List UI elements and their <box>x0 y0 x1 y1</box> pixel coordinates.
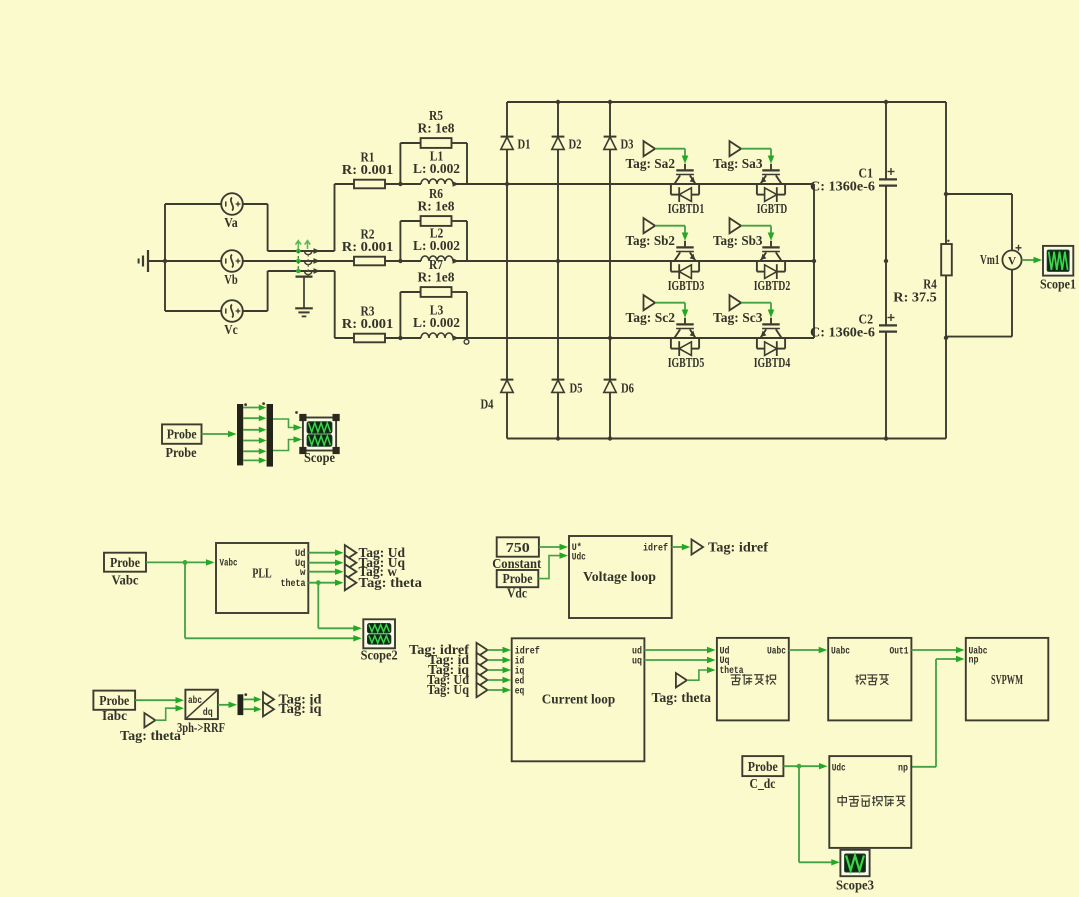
svg-text:Tag: Sb3: Tag: Sb3 <box>713 233 763 248</box>
svg-text:R: 0.001: R: 0.001 <box>342 239 394 254</box>
svg-text:IGBTD2: IGBTD2 <box>754 278 791 293</box>
svg-text:Udc: Udc <box>572 551 586 562</box>
svg-text:R: 0.001: R: 0.001 <box>342 316 394 331</box>
svg-text:D2: D2 <box>569 137 582 152</box>
svg-text:R: 1e8: R: 1e8 <box>418 120 455 135</box>
svg-text:D3: D3 <box>621 137 634 152</box>
svg-text:Tag: Sa2: Tag: Sa2 <box>626 156 676 171</box>
svg-text:750: 750 <box>506 541 530 556</box>
svg-text:IGBTD5: IGBTD5 <box>668 355 705 370</box>
svg-text:IGBTD1: IGBTD1 <box>668 201 705 216</box>
svg-text:Probe: Probe <box>166 445 197 460</box>
svg-text:Scope1: Scope1 <box>1040 277 1076 292</box>
svg-text:uq: uq <box>632 656 642 667</box>
svg-text:Tag: idref: Tag: idref <box>708 540 769 555</box>
svg-text:3ph->RRF: 3ph->RRF <box>177 720 225 735</box>
svg-text:Tag: Uq: Tag: Uq <box>427 682 469 697</box>
svg-text:abc: abc <box>188 695 202 706</box>
svg-text:Vdc: Vdc <box>507 586 527 601</box>
svg-text:Scope3: Scope3 <box>836 878 874 893</box>
svg-text:Probe: Probe <box>503 571 533 586</box>
svg-text:D6: D6 <box>621 381 634 396</box>
svg-text:Tag: iq: Tag: iq <box>279 701 323 716</box>
svg-text:Probe: Probe <box>748 759 778 774</box>
svg-text:np: np <box>969 655 979 666</box>
svg-text:L: 0.002: L: 0.002 <box>413 315 460 330</box>
svg-text:Probe: Probe <box>167 427 197 442</box>
svg-text:L: 0.002: L: 0.002 <box>413 161 460 176</box>
svg-text:IGBTD: IGBTD <box>757 201 788 216</box>
svg-text:Uabc: Uabc <box>831 645 850 656</box>
svg-text:Va: Va <box>224 215 238 230</box>
svg-text:Probe: Probe <box>99 693 129 708</box>
svg-text:C_dc: C_dc <box>750 776 776 791</box>
svg-text:w: w <box>300 567 306 578</box>
svg-text:Scope: Scope <box>304 450 335 465</box>
svg-text:R: 37.5: R: 37.5 <box>893 290 937 305</box>
svg-text:theta: theta <box>281 578 306 589</box>
svg-text:Voltage loop: Voltage loop <box>583 569 656 584</box>
svg-text:dq: dq <box>203 707 213 718</box>
svg-text:R: 1e8: R: 1e8 <box>418 198 455 213</box>
svg-text:Uabc: Uabc <box>767 645 786 656</box>
svg-text:Scope2: Scope2 <box>361 648 398 663</box>
svg-text:L: 0.002: L: 0.002 <box>413 238 460 253</box>
svg-text:Tag: theta: Tag: theta <box>359 575 423 590</box>
svg-text:C: 1360e-6: C: 1360e-6 <box>810 179 875 194</box>
svg-text:D4: D4 <box>481 397 494 412</box>
svg-text:Tag: Sa3: Tag: Sa3 <box>713 156 763 171</box>
svg-text:Uq: Uq <box>720 655 730 666</box>
svg-text:Tag: Sc3: Tag: Sc3 <box>713 310 763 325</box>
svg-text:R: 0.001: R: 0.001 <box>342 162 394 177</box>
svg-text:V: V <box>1008 256 1017 268</box>
svg-text:Tag: Sc2: Tag: Sc2 <box>626 310 676 325</box>
svg-text:Vb: Vb <box>224 272 238 287</box>
svg-text:Constant: Constant <box>492 556 541 571</box>
svg-text:Current loop: Current loop <box>542 692 616 707</box>
svg-text:idref: idref <box>643 542 668 553</box>
svg-text:Vm1: Vm1 <box>980 252 1000 267</box>
svg-text:Tag: Sb2: Tag: Sb2 <box>626 233 676 248</box>
svg-text:D5: D5 <box>570 381 583 396</box>
svg-text:Tag: theta: Tag: theta <box>652 690 712 705</box>
svg-text:Udc: Udc <box>832 763 846 774</box>
svg-text:IGBTD3: IGBTD3 <box>668 278 705 293</box>
svg-text:R: 1e8: R: 1e8 <box>418 269 455 284</box>
svg-text:SVPWM: SVPWM <box>991 672 1023 687</box>
svg-text:Probe: Probe <box>110 555 140 570</box>
svg-text:C: 1360e-6: C: 1360e-6 <box>810 325 875 340</box>
svg-text:Tag: theta: Tag: theta <box>120 728 181 743</box>
svg-text:Vabc: Vabc <box>112 573 139 588</box>
svg-text:np: np <box>898 763 908 774</box>
svg-text:Vabc: Vabc <box>220 557 238 568</box>
svg-text:IGBTD4: IGBTD4 <box>754 355 791 370</box>
svg-text:PLL: PLL <box>252 566 272 581</box>
svg-text:D1: D1 <box>518 137 531 152</box>
svg-text:Vc: Vc <box>224 322 238 337</box>
svg-text:Out1: Out1 <box>890 645 909 656</box>
svg-text:Iabc: Iabc <box>102 708 127 723</box>
svg-text:eq: eq <box>515 686 525 697</box>
